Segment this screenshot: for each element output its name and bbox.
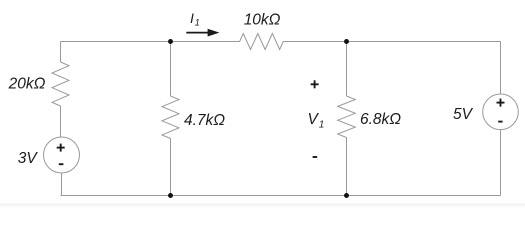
svg-text:V: V [308, 111, 320, 128]
svg-text:4.7kΩ: 4.7kΩ [184, 112, 225, 129]
svg-text:I: I [190, 10, 194, 26]
svg-text:3V: 3V [18, 150, 39, 167]
svg-text:10kΩ: 10kΩ [244, 12, 281, 29]
svg-text:5V: 5V [453, 106, 474, 123]
svg-text:20kΩ: 20kΩ [8, 76, 46, 93]
svg-text:1: 1 [319, 119, 325, 130]
svg-text:1: 1 [195, 18, 200, 28]
svg-text:6.8kΩ: 6.8kΩ [360, 111, 401, 128]
